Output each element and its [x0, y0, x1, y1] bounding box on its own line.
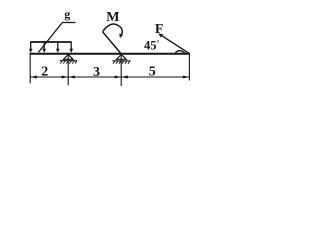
dim arrow left end (points left)	[31, 76, 37, 79]
dim arrow B right side (points left)	[122, 76, 128, 79]
support B hatches	[113, 61, 130, 64]
moment arrowhead	[119, 33, 123, 38]
extension line support A	[67, 55, 69, 85]
support A triangle	[64, 55, 74, 60]
beam	[30, 53, 191, 55]
dim arrow right end (points right)	[183, 76, 189, 79]
dimension line	[30, 76, 189, 78]
extension line left end	[29, 55, 31, 84]
support B ground line	[112, 60, 130, 62]
load arrow 3	[56, 42, 60, 53]
svg-text:F: F	[155, 22, 164, 37]
load arrow 1	[29, 42, 33, 53]
svg-text:3: 3	[93, 65, 100, 80]
dim arrow A left side (points right)	[62, 76, 68, 79]
leader bar under q	[62, 22, 76, 24]
svg-text:5: 5	[149, 64, 156, 79]
extension line support B	[120, 55, 122, 86]
distributed load q top line	[30, 41, 71, 43]
support A ground line	[60, 60, 77, 62]
dim arrow A right side (points left)	[69, 76, 75, 79]
dim arrow B left side (points right)	[115, 76, 121, 79]
load arrow 4	[69, 42, 73, 53]
svg-text:M: M	[106, 10, 119, 25]
load arrow 2	[42, 42, 46, 53]
45 degree angle arc	[175, 51, 185, 53]
extension line right end	[188, 55, 190, 81]
leader line for q	[38, 23, 62, 52]
force F arrowhead	[158, 33, 163, 37]
moment bracket rod	[103, 32, 122, 54]
support A hatches	[60, 61, 77, 64]
moment arc	[103, 24, 123, 36]
support B triangle	[116, 55, 126, 60]
svg-text:g: g	[64, 7, 70, 21]
svg-text:2: 2	[41, 65, 48, 80]
force F line	[160, 35, 189, 54]
